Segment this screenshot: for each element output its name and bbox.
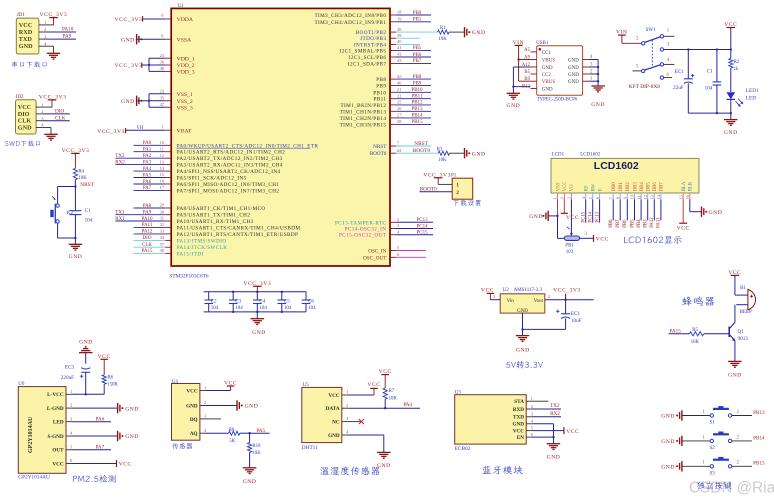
svg-text:PB11: PB11 [412,95,423,100]
connector USB1 TYPE-C [522,41,583,95]
svg-text:220uF: 220uF [61,375,74,381]
svg-text:10: 10 [630,195,635,199]
svg-text:U2: U2 [503,288,510,293]
pin 28 PB15 right [340,119,431,128]
svg-text:VBAT: VBAT [177,128,192,134]
svg-text:CLK: CLK [55,115,66,121]
svg-text:15: 15 [678,195,683,199]
svg-text:A5: A5 [524,48,530,53]
svg-text:GND: GND [512,422,524,428]
svg-text:VCC: VCC [677,226,690,232]
svg-text:13: 13 [650,195,655,199]
svg-text:PA11: PA11 [657,217,662,228]
svg-text:EC1: EC1 [675,69,685,75]
svg-text:R2: R2 [734,60,740,65]
capacitor EC3 220uF [61,364,90,394]
pin 16 PA6 left [134,179,280,188]
svg-text:VCC: VCC [596,236,609,242]
svg-text:PA3/USART2_RX/ADC12_IN3/TIM2_C: PA3/USART2_RX/ADC12_IN3/TIM2_CH4 [177,163,283,169]
svg-text:GND: GND [186,403,198,409]
capacitor C6 104 [302,292,316,312]
svg-text:32: 32 [160,222,164,227]
pin 46 PB9 right [376,80,431,89]
svg-text:VSS: VSS [556,182,561,191]
connector JD1 serial download header [16,13,47,54]
svg-text:PA8/USART1_CK/TIM1_CH1/MCO: PA8/USART1_CK/TIM1_CH1/MCO [177,206,266,212]
wires LCD data pins to port nets [609,200,662,228]
ground at button S3 [661,461,682,471]
svg-text:GND: GND [547,455,561,461]
svg-text:PR1: PR1 [565,243,574,248]
svg-text:C1: C1 [85,208,91,214]
LCD BLA pin15 to VCC [677,200,690,232]
wire JD2 pin2 net DIO [43,109,70,115]
buzzer B1 BEEP [735,286,756,315]
svg-text:PB15: PB15 [753,461,765,467]
svg-text:GP2Y1014AU: GP2Y1014AU [28,416,34,453]
svg-text:PB5: PB5 [630,219,635,228]
svg-text:PA2: PA2 [143,154,152,159]
svg-text:PB5: PB5 [413,46,422,51]
wire VIN to SW1 pin2 [622,42,642,44]
wire buzzer to Q1 collector [734,305,736,323]
label PM2.5 jiance (PM2.5 detection) [73,475,116,483]
svg-text:STM32F103C6T6: STM32F103C6T6 [169,274,208,280]
resistor R3 10K [437,147,465,163]
svg-text:R4: R4 [78,170,84,175]
svg-text:SW1: SW1 [646,28,657,33]
ground at JD2 pin4 [44,134,58,140]
svg-text:1k: 1k [734,67,739,72]
wire R4 to node NRST and cap [74,180,76,211]
wire U3 STA stub [533,400,549,402]
label duli anjian (independent keys) [697,481,732,489]
svg-text:41: 41 [397,45,401,50]
svg-text:42: 42 [397,52,401,57]
svg-text:PA15: PA15 [142,249,153,254]
label TYPEC-250D-BCP6 [537,97,578,102]
svg-text:PB6: PB6 [623,219,628,228]
svg-text:PB7: PB7 [413,59,422,64]
svg-text:C4: C4 [259,300,265,305]
svg-text:11: 11 [160,146,164,151]
net PB13 at button S1 [753,410,765,416]
svg-text:TYPEC-250D-BCP6: TYPEC-250D-BCP6 [537,97,578,102]
wire U6 pin3 net PA6 [73,417,112,423]
wire U6 pin6 to VCC [73,460,132,468]
svg-text:GND: GND [568,66,579,71]
svg-text:PC15: PC15 [582,211,587,222]
wire SW1 pin3 to VCC node [664,48,732,50]
svg-text:PA12: PA12 [650,217,655,228]
svg-text:GND: GND [591,102,605,108]
svg-text:TIM1_BKIN/PB12: TIM1_BKIN/PB12 [340,103,386,109]
pushbutton S3 [682,457,752,477]
ground at button S1 [661,410,682,420]
wire USB GND pins to ground [512,67,530,93]
svg-text:RXD: RXD [19,29,33,36]
svg-text:GND: GND [79,340,93,346]
ground at R1 [465,27,486,37]
svg-text:16: 16 [685,195,690,199]
svg-text:NC: NC [332,420,340,426]
wire U4 pin1 to VCC [206,381,237,391]
svg-text:PB14: PB14 [753,435,765,441]
capacitor EC1 10uF output [556,300,582,330]
pin 4 PC15 [339,229,433,238]
ground reset circuit [69,244,83,260]
svg-text:8: 8 [615,197,620,199]
ground decoupling rail [251,319,266,336]
svg-text:R6: R6 [108,376,114,381]
svg-text:RW: RW [592,183,597,191]
svg-text:DB1: DB1 [619,182,624,192]
capacitor C1 104 power [705,50,722,114]
svg-text:VCC_3V3: VCC_3V3 [553,287,581,293]
svg-text:VDD_1: VDD_1 [177,56,195,62]
svg-text:PC15-OSC32_OUT: PC15-OSC32_OUT [339,233,387,239]
svg-text:VCC_3V3: VCC_3V3 [115,17,143,23]
pin VSSA 8 with GND [121,33,192,44]
svg-text:PB11: PB11 [373,97,386,103]
pin 22 PB11 right [373,93,431,102]
svg-text:VCC: VCC [379,369,392,375]
svg-text:I2C1_SDA/PB7: I2C1_SDA/PB7 [348,61,387,67]
wire gnd rail to potentiometer left [558,216,565,238]
wire Q1 emitter to ground [734,341,736,362]
svg-text:VSS_1: VSS_1 [177,92,193,98]
label GP2Y1014AU [18,475,50,481]
svg-text:1: 1 [553,197,558,199]
wire VIN to VBUS pins [517,45,530,81]
svg-text:PA7: PA7 [143,186,152,191]
svg-text:L-VCC: L-VCC [47,392,64,398]
svg-text:PA9/USART1_TX/TIM1_CH2: PA9/USART1_TX/TIM1_CH2 [177,213,251,219]
svg-text:TIM1_CH2N/PB14: TIM1_CH2N/PB14 [340,116,387,122]
svg-text:10K: 10K [389,396,398,401]
svg-text:DB5: DB5 [647,182,652,192]
label wenshidu chuanganqi (temp humidity sensor) [320,466,379,475]
svg-text:PB9: PB9 [413,81,422,86]
svg-text:C1: C1 [707,69,713,75]
pin 7 NRST [373,141,431,150]
pin 5 OSC_IN [368,245,426,254]
pin 37 CLK left [134,242,228,251]
capacitor EC1 22uF [673,50,694,114]
pin 17 PA7 left [134,185,280,194]
svg-text:VCC: VCC [19,22,32,29]
svg-text:GND: GND [472,30,486,36]
pin 41 PB5 right [340,45,431,54]
pushbutton K2 [50,196,73,223]
ground at R3 [465,148,486,158]
svg-text:DIO: DIO [143,236,152,241]
potentiometer PR1 103 [564,236,579,255]
wire VCC_3V3 to P1 pin1 [438,183,452,185]
resistor R7 10K [383,388,397,408]
svg-text:TIM1_CH3N/PB15: TIM1_CH3N/PB15 [340,122,387,128]
watermark CSDN @Riaz [689,480,774,497]
power flag VIN at SW1 [616,30,628,44]
svg-text:GND: GND [542,66,553,71]
wire U6 pin1 node [73,393,105,395]
svg-text:E: E [598,188,603,191]
svg-text:Vin: Vin [507,299,515,304]
ground buzzer [728,361,742,378]
pin 12 PA2 left [115,153,282,162]
label LCD1602 xianshi (display) [624,236,682,244]
svg-text:PA13/JTMS/SWDIO: PA13/JTMS/SWDIO [177,238,227,244]
ground USB left [507,93,521,109]
pin 45 PB8 right [376,74,431,83]
svg-text:11: 11 [636,195,641,199]
svg-text:R7: R7 [389,389,395,394]
svg-text:PB14: PB14 [411,114,423,119]
svg-text:GND: GND [252,330,266,336]
svg-text:GND: GND [125,434,139,440]
svg-text:KFT DIP-8X8: KFT DIP-8X8 [629,84,661,90]
ground above EC3 inverted [79,340,93,364]
svg-text:R3: R3 [437,147,443,152]
label 5V to 3.3V [506,361,543,369]
svg-text:150R: 150R [107,383,118,388]
svg-text:I2C1_SMBAL/PB5: I2C1_SMBAL/PB5 [340,48,387,54]
svg-text:EC1: EC1 [571,311,581,317]
pin 10 PA0 left [134,140,319,149]
svg-text:S-GND: S-GND [47,434,63,440]
svg-text:10K: 10K [691,340,700,345]
pin 43 PB7 right [348,58,431,67]
wire power bottom rail [688,112,732,120]
svg-text:5: 5 [588,197,593,199]
svg-text:PB0: PB0 [413,11,422,16]
wire U4 pin3 DQ stub [206,418,221,420]
ground U4 pin2 [237,400,258,410]
svg-text:BOOT1/PB2: BOOT1/PB2 [356,30,387,36]
svg-text:PC14: PC14 [589,211,594,222]
svg-text:B5: B5 [524,70,530,75]
svg-text:GND: GND [568,80,579,85]
capacitor C3 104 [229,292,243,312]
svg-text:PA10: PA10 [62,27,74,33]
svg-text:ECB02: ECB02 [455,446,471,452]
svg-text:EC3: EC3 [65,364,75,370]
node NRST [74,182,94,188]
wire decoupling top rail [204,291,306,293]
svg-text:GND: GND [472,151,486,157]
svg-text:DB0: DB0 [612,182,617,192]
pin VDDA 9 with VCC_3V3 [115,13,194,23]
svg-text:JD1: JD1 [17,13,26,18]
LCD VCC pin2 power [561,200,579,221]
svg-text:PB3: PB3 [644,219,649,228]
svg-text:GND: GND [709,210,723,216]
wire JD1 pin4 to ground [45,46,53,53]
svg-text:GND: GND [568,73,579,78]
svg-text:BLK: BLK [689,181,694,191]
pin 30 PA9 left [115,209,250,218]
svg-text:104: 104 [259,306,267,311]
svg-text:12: 12 [160,153,164,158]
node PA5 junction [248,428,269,434]
label DHT11 [302,445,318,451]
ground U6 pin2 [118,403,139,413]
power flag VCC at U2 input [481,287,494,299]
svg-text:VCC: VCC [367,382,380,388]
svg-text:RS: RS [585,185,590,191]
pushbutton S2 [682,432,752,452]
svg-text:5K: 5K [229,439,235,444]
svg-text:PB8: PB8 [413,75,422,80]
svg-text:VCC: VCC [513,429,524,435]
svg-text:VCC: VCC [52,461,63,467]
svg-text:10K: 10K [438,158,447,163]
wire VCC to U2 Vin [490,294,500,300]
svg-text:22: 22 [397,93,401,98]
svg-text:AQ: AQ [190,431,198,437]
svg-text:GND: GND [19,43,33,50]
wire BOOT0 to P1 pin2 [420,186,453,192]
svg-text:PA6: PA6 [96,417,105,423]
wire potentiometer to VCC [580,232,609,242]
svg-text:PB15: PB15 [411,120,423,125]
svg-text:C5: C5 [284,300,290,305]
svg-text:104: 104 [284,306,292,311]
svg-text:PB10: PB10 [411,88,423,93]
pin 19 PB1 right [314,17,431,26]
wire node to button branch [58,187,76,204]
svg-text:10K: 10K [78,176,87,181]
power flag VCC_3V3 at JD2 pin 1 [39,94,67,107]
pin 11 PA1 left [134,146,286,155]
pins VSS_1 VSS_2 VSS_3 with GND bus [121,89,193,112]
svg-text:RX1: RX1 [115,217,125,222]
wire U5 NC with no-connect X [348,419,364,424]
svg-text:21: 21 [397,87,401,92]
svg-text:L-GND: L-GND [47,406,64,412]
label ECB02 [455,446,471,452]
power flag VCC buzzer [728,270,741,295]
svg-text:R1: R1 [440,26,446,31]
wire LCD VSS to gnd rail [548,200,558,218]
wire button and cap to ground rail [58,215,77,245]
resistor R2 1k [729,50,740,93]
pin 2 PC13 [335,217,433,226]
power flag VCC_3V3 at JD1 pin 1 [40,12,68,25]
wire U3 VCC [533,427,580,435]
wires LCD RS RW E to PC15 PC14 PC13 [582,200,601,223]
svg-text:PA2/USART2_TX/ADC12_IN2/TIM2_C: PA2/USART2_TX/ADC12_IN2/TIM2_CH3 [177,156,283,162]
svg-text:PA4/SPI1_NSS/USART2_CK/ADC12_I: PA4/SPI1_NSS/USART2_CK/ADC12_IN4 [177,169,281,175]
wire U5 pin1 to VCC [348,382,381,395]
svg-text:GND: GND [69,254,83,260]
svg-text:31: 31 [160,216,164,221]
svg-text:VDD_3: VDD_3 [177,70,195,76]
svg-text:7: 7 [608,197,613,199]
svg-text:PA6: PA6 [143,180,152,185]
svg-text:GND: GND [661,439,675,445]
net PA15 to R5 [669,329,690,335]
svg-text:2: 2 [397,217,399,222]
svg-text:DHT11: DHT11 [302,445,318,451]
svg-text:GND: GND [507,103,521,109]
svg-text:VSSA: VSSA [177,37,192,43]
svg-text:PA0: PA0 [143,141,152,146]
svg-text:PB12: PB12 [411,101,423,106]
wire rail to ground [256,312,258,319]
svg-text:DIO: DIO [55,109,64,115]
svg-text:PA12/USART1_RTS/CANTX/TIM1_ETR: PA12/USART1_RTS/CANTX/TIM1_ETR/USBDP [177,232,299,238]
svg-text:R8: R8 [229,428,235,433]
svg-text:PA7: PA7 [96,445,105,451]
ground LCD right [702,207,723,217]
pin 14 PA4 left [134,166,281,175]
svg-text:VCC: VCC [119,462,132,468]
svg-text:PB9: PB9 [376,84,386,90]
wire JD2 pin3 net CLK [43,115,70,121]
svg-text:DB2: DB2 [626,182,631,192]
svg-text:PA10: PA10 [142,217,153,222]
svg-text:RX2: RX2 [550,411,560,417]
svg-text:NRST: NRST [414,141,428,147]
label fengmingqi (buzzer) [682,296,714,305]
svg-text:12: 12 [643,195,648,199]
svg-text:VBUS: VBUS [542,80,556,85]
label chuankou xiazaikou (serial download port) [12,61,46,67]
ground power filter [724,120,738,136]
wire JD1 pin3 net PA9 [45,34,76,40]
svg-text:AMS1117-3.3: AMS1117-3.3 [514,288,543,293]
svg-text:VCC: VCC [224,381,237,387]
capacitor C2 104 [204,292,218,312]
svg-text:VDD_2: VDD_2 [177,63,195,69]
svg-text:VBUS: VBUS [542,59,556,64]
svg-text:C3: C3 [235,300,241,305]
svg-text:PA5/SPI1_SCK/ADC12_IN5: PA5/SPI1_SCK/ADC12_IN5 [177,176,247,182]
ground U6 pin4 [118,431,139,441]
svg-text:JD2: JD2 [16,95,25,100]
header P1 boot select [452,178,473,199]
svg-text:B1: B1 [740,286,746,291]
ground U2 [516,336,530,354]
switch SW1 KFT DIP-8X8 [629,28,675,90]
svg-text:VCC: VCC [566,215,579,221]
power flag VCC_3V3 at P1 [423,173,457,185]
svg-text:PB4: PB4 [637,219,642,228]
svg-text:DATA: DATA [326,406,340,412]
sensor U4 body [172,380,208,440]
svg-text:PB8: PB8 [376,77,386,83]
capacitor C1 104 reset [69,208,92,223]
svg-text:LED: LED [746,95,756,101]
svg-text:GND: GND [661,414,675,420]
svg-text:OSC_OUT: OSC_OUT [363,255,387,261]
svg-text:Vout: Vout [534,299,544,304]
svg-text:10uF: 10uF [571,318,582,324]
wire U2 GND pin to ground [521,313,565,336]
svg-text:9013: 9013 [738,336,749,342]
ground U3 [547,444,561,461]
pin 15 PA5 left [134,172,247,181]
capacitor C4 104 [253,292,267,312]
svg-text:TX1: TX1 [115,211,125,216]
svg-text:PB10: PB10 [373,90,386,96]
wire U5 GND to ground [348,435,384,452]
pin VBAT 1 with VCC_3V3 and net VH [97,124,192,135]
svg-text:GND: GND [121,99,135,105]
svg-text:PC13: PC13 [595,211,600,222]
svg-text:3: 3 [567,197,572,199]
